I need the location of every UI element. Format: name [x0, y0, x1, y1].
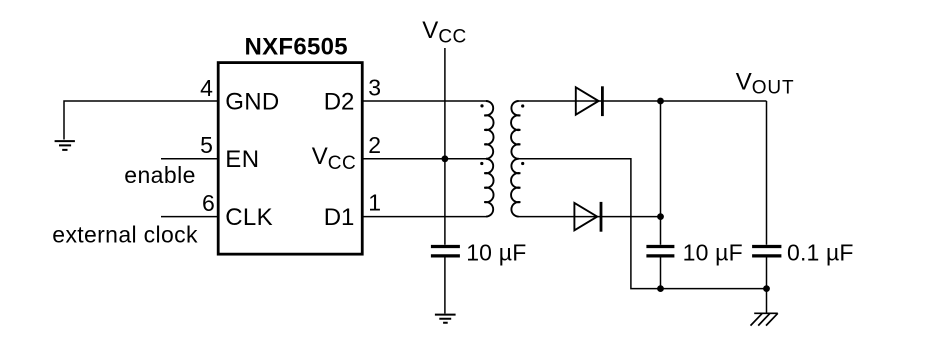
wire vertical at x=660 below cap C2: [660, 258, 662, 289]
wire enable stub pin5: [161, 158, 217, 160]
IC U1 NXF6505 body: [218, 63, 362, 255]
junction dot bottom rail C2: [657, 285, 664, 292]
svg-text:D2: D2: [324, 88, 355, 115]
svg-text:external clock: external clock: [52, 222, 198, 248]
wire VCC vertical rail: [444, 48, 446, 245]
wire stub bottom rail to chassis ground: [766, 289, 768, 314]
diode D1 cathode bar: [601, 86, 604, 116]
wire diode D1 output to junction and VOUT corner: [602, 100, 766, 102]
ground (signal) below capacitor C1: [435, 315, 456, 323]
svg-text:NXF6505: NXF6505: [244, 34, 348, 61]
svg-text:EN: EN: [225, 146, 259, 173]
junction dot bottom rail C3 / ground: [763, 285, 770, 292]
diode D2 (bottom rectifier) anode triangle: [574, 203, 597, 230]
wire secondary bottom lead to diode D2: [518, 216, 574, 218]
junction dot D1 output node: [657, 98, 664, 105]
transformer T1 primary winding section 1: [484, 101, 493, 159]
svg-text:0.1 µF: 0.1 µF: [787, 239, 854, 265]
transformer T1 primary winding section 2: [484, 159, 493, 217]
diode D1 (top rectifier) anode triangle: [576, 87, 599, 114]
svg-text:4: 4: [200, 75, 213, 101]
capacitor C3 0.1uF plates: [752, 247, 781, 256]
transformer phase dot primary bottom section: [480, 162, 483, 165]
wire pin2 VCC to primary center tap: [364, 158, 487, 160]
svg-text:VOUT: VOUT: [736, 68, 795, 98]
wire secondary top lead to diode D1: [518, 100, 575, 102]
svg-text:5: 5: [200, 132, 213, 158]
svg-text:10 µF: 10 µF: [466, 239, 526, 265]
svg-text:enable: enable: [124, 162, 195, 188]
svg-text:2: 2: [368, 132, 381, 158]
svg-text:10 µF: 10 µF: [683, 239, 743, 265]
wire vertical at x=660 top to cap C2: [660, 101, 662, 245]
diode D2 cathode bar: [600, 202, 603, 232]
wire VOUT vertical down to cap C3: [766, 101, 768, 245]
transformer phase dot secondary top: [521, 104, 524, 107]
wire diode D1 anode-cathode passthrough: [576, 100, 603, 102]
chassis ground at VOUT return rail: [751, 313, 778, 325]
wire below capacitor C1 to ground: [444, 258, 446, 314]
wire diode D2 passthrough and output: [574, 216, 660, 218]
wire secondary center tap down to bottom rail: [518, 159, 766, 289]
transformer phase dot secondary bottom section: [521, 162, 524, 165]
wire external clock stub pin6: [161, 216, 217, 218]
svg-text:CLK: CLK: [225, 204, 273, 231]
wire pin4 to ground: [64, 101, 217, 140]
wire below cap C3 to bottom rail: [766, 258, 768, 289]
transformer phase dot primary top: [480, 104, 483, 107]
svg-text:GND: GND: [225, 88, 279, 115]
capacitor C2 10uF plates: [646, 247, 674, 256]
junction dot VCC rail / pin2: [442, 155, 449, 162]
ground (signal) at pin 4: [55, 141, 75, 150]
junction dot D2 output node: [657, 213, 664, 220]
wire pin3 D2 to primary top: [364, 100, 487, 102]
svg-text:3: 3: [368, 75, 381, 101]
svg-text:D1: D1: [324, 204, 355, 231]
svg-text:6: 6: [202, 190, 215, 216]
svg-text:1: 1: [368, 190, 381, 216]
transformer T1 secondary winding section 2: [511, 159, 520, 217]
wire pin1 D1 to primary bottom: [364, 216, 487, 218]
capacitor C1 10uF plates: [431, 247, 460, 256]
transformer T1 secondary winding section 1: [511, 101, 520, 159]
svg-text:VCC: VCC: [422, 17, 466, 48]
